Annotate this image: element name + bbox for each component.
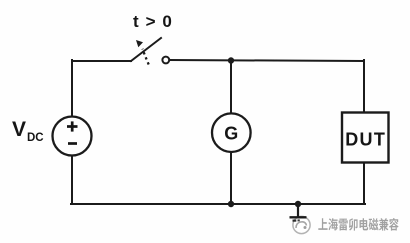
- voltage source VDC minus sign: [68, 142, 77, 145]
- wire left vertical upper (top corner to VDC top): [71, 60, 73, 116]
- svg-text:DC: DC: [27, 132, 44, 144]
- svg-text:G: G: [224, 124, 238, 144]
- wire top-left horizontal segment: [72, 60, 131, 62]
- node B: bottom junction of G branch: [228, 201, 234, 207]
- switch S1 open terminal circle: [162, 57, 169, 64]
- node C: ground junction on bottom rail: [295, 201, 301, 207]
- voltage source VDC circle: [53, 117, 92, 156]
- watermark logo (gray circular emblem): [293, 216, 310, 233]
- node A: top junction of G branch: [228, 57, 234, 63]
- wire bottom rail: [71, 203, 365, 205]
- switch actuation dotted arrow: [136, 40, 149, 65]
- ground symbol: [290, 204, 307, 221]
- svg-text:V: V: [12, 118, 26, 141]
- wire top rail right of switch: [170, 60, 365, 61]
- watermark text 上海雷卯电磁兼容 (drawn as vector outlines): [318, 218, 398, 231]
- switch S1 blade: [131, 38, 161, 61]
- wire right vertical lower (DUT bottom to bottom rail): [363, 162, 365, 204]
- wire left vertical lower (VDC bottom to bottom rail): [71, 156, 73, 204]
- DUT box: [342, 113, 389, 163]
- wire right vertical upper (top corner to DUT top): [363, 60, 365, 113]
- wire G branch lower (G bottom to bottom rail): [230, 152, 232, 204]
- voltage source VDC plus sign: [67, 121, 78, 131]
- generator source G circle: [212, 113, 251, 152]
- wire G branch upper (top rail to G top): [230, 60, 232, 114]
- svg-text:t > 0: t > 0: [133, 12, 172, 31]
- svg-text:DUT: DUT: [345, 129, 386, 149]
